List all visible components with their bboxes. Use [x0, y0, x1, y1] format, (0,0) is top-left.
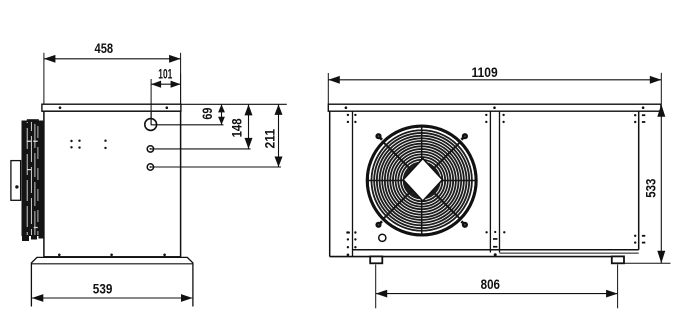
svg-text:533: 533: [642, 178, 658, 197]
bottom screws of body: [58, 254, 61, 257]
panel screw right: [166, 106, 169, 109]
left foot: [370, 256, 382, 263]
svg-text:148: 148: [228, 118, 244, 137]
guard spokes: [421, 127, 423, 166]
top reference line for vertical dims: [181, 103, 287, 105]
right edge screws: [634, 114, 636, 116]
right view: front elevation with fan: [328, 64, 670, 308]
svg-text:1109: 1109: [472, 64, 498, 80]
coil mounting bracket: [11, 161, 21, 201]
dimension 533: [642, 104, 665, 263]
fan hub diamond: [403, 158, 442, 201]
port circle middle: [147, 146, 153, 152]
svg-text:458: 458: [95, 40, 114, 56]
svg-text:101: 101: [158, 65, 172, 81]
guard mounting lugs: [379, 136, 383, 140]
channel screws: [485, 114, 487, 116]
svg-text:69: 69: [199, 107, 215, 119]
dimension 1109: [328, 64, 661, 104]
bracket bolt: [15, 185, 18, 188]
interior rivet pair: [104, 140, 106, 142]
dimension 806: [376, 265, 618, 309]
dimension 458: [44, 40, 181, 104]
fan guard: [367, 126, 476, 235]
body (left view): [44, 111, 181, 257]
left view: side elevation of condensing unit: [11, 40, 287, 307]
svg-text:539: 539: [93, 280, 113, 296]
middle divider channel: [489, 111, 491, 252]
dimension 211: [262, 104, 283, 167]
panel screws: [345, 106, 348, 109]
port circle large: [145, 119, 157, 131]
bottom extension to 533 dim: [624, 262, 671, 264]
top panel (left view): [42, 104, 181, 111]
left inner divider: [352, 111, 354, 256]
base plate lines: [500, 252, 639, 254]
base / plinth (left view): [31, 257, 193, 306]
interior rivet dots cluster: [70, 140, 72, 142]
drain hole circle: [379, 234, 386, 241]
leader from middle port: [150, 148, 250, 150]
dimension 69: [199, 104, 225, 124]
right foot: [612, 256, 624, 263]
body (right view): [329, 111, 331, 256]
svg-text:806: 806: [481, 276, 501, 292]
dimension 148: [228, 104, 252, 148]
divider screws top: [346, 232, 350, 234]
dimension 101: [151, 65, 181, 124]
leader from large port: [151, 124, 224, 126]
base lip line: [31, 263, 193, 265]
leader from lower port: [150, 166, 281, 168]
divider screws bottom: [347, 231, 349, 233]
panel screw left: [59, 106, 62, 109]
top panel (right view): [328, 104, 661, 111]
svg-text:211: 211: [262, 129, 278, 149]
condenser coil block: [22, 119, 45, 241]
dimension 539: [32, 280, 193, 302]
port circle lower: [147, 164, 153, 170]
